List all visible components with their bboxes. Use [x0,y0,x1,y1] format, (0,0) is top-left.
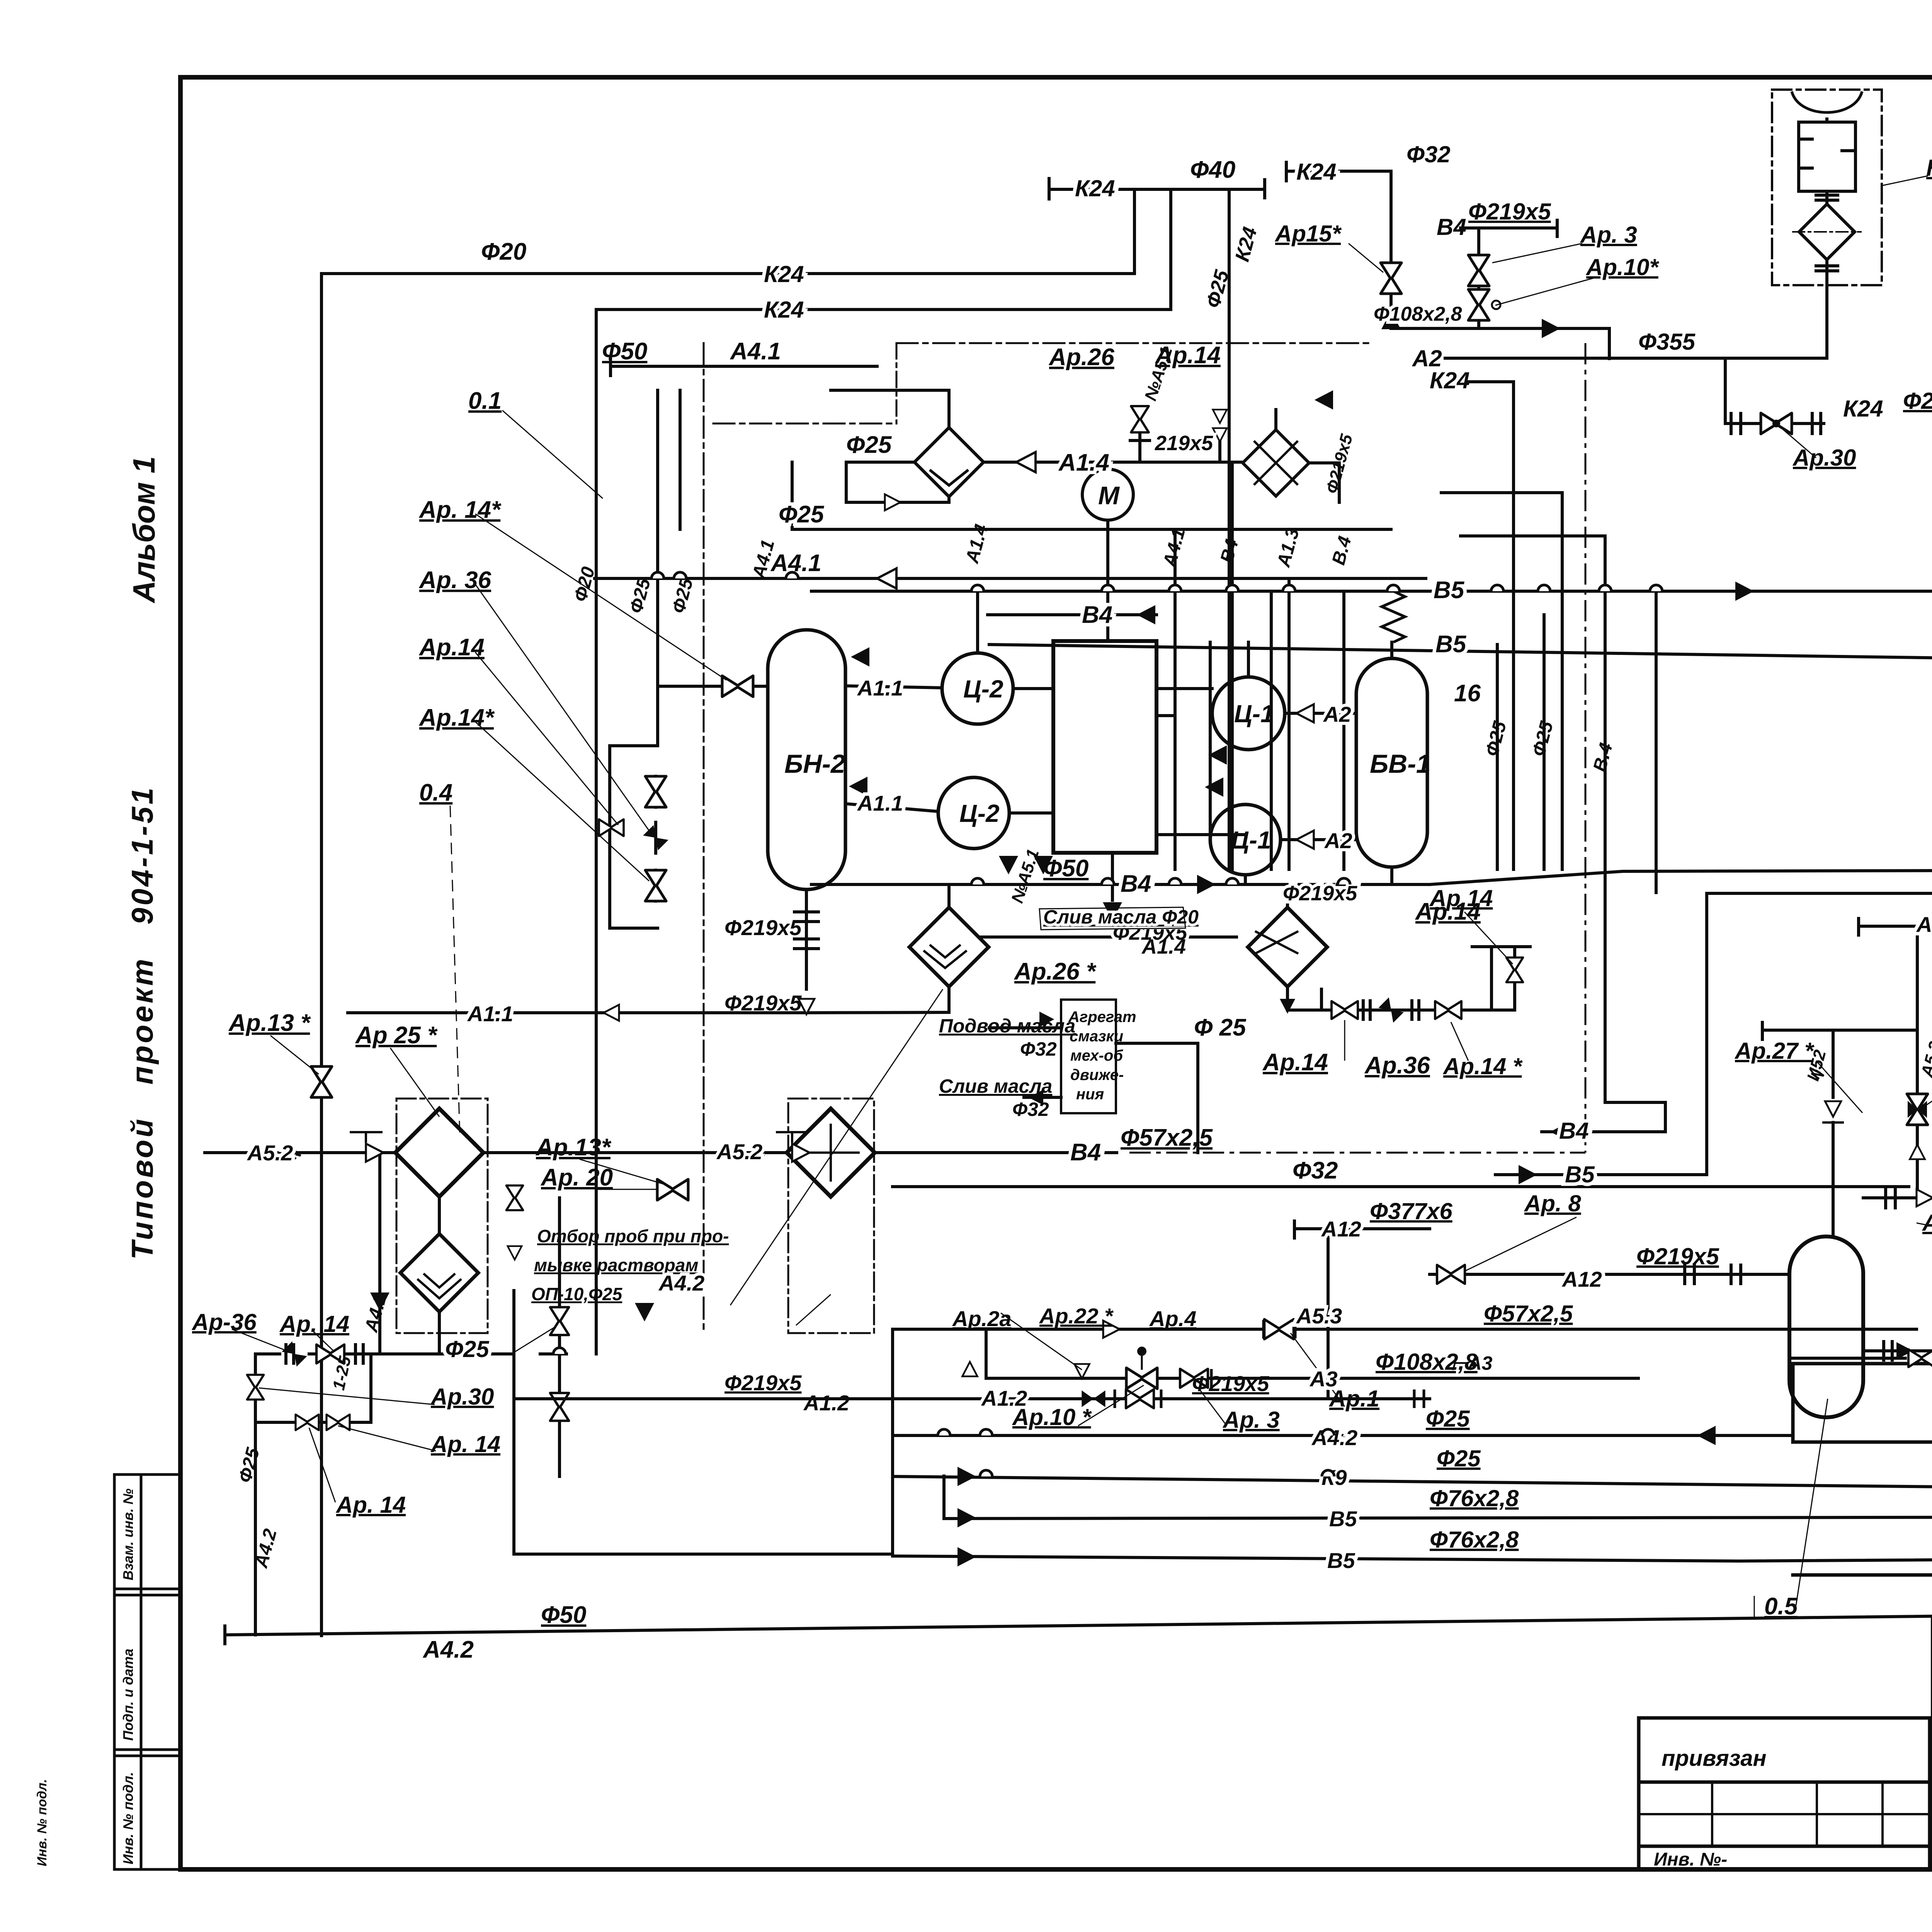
svg-text:Ар. 14: Ар. 14 [279,1311,349,1337]
svg-text:В4: В4 [1437,214,1466,240]
svg-text:0.5: 0.5 [1764,1593,1798,1620]
svg-text:К24: К24 [1843,396,1883,422]
svg-text:Ар.14: Ар.14 [1429,885,1493,911]
svg-text:Ар. 14*: Ар. 14* [418,497,502,523]
svg-text:Подвод масла: Подвод масла [939,1015,1075,1037]
svg-text:Ар.14 *: Ар.14 * [1442,1053,1523,1079]
svg-text:А1.2: А1.2 [803,1391,849,1415]
svg-text:Взам. инв. №: Взам. инв. № [120,1488,136,1580]
svg-text:Ар.17 *: Ар.17 * [1922,1210,1932,1236]
svg-text:Альбом 1: Альбом 1 [127,456,161,604]
svg-text:0.4: 0.4 [419,779,452,806]
svg-text:Ф50: Ф50 [541,1602,586,1628]
svg-text:Ар.26: Ар.26 [1048,344,1114,371]
svg-text:Ар.36: Ар.36 [1364,1052,1430,1079]
svg-text:Ар15*: Ар15* [1274,221,1342,247]
svg-text:А1.2: А1.2 [981,1386,1027,1410]
svg-text:Инв. №-: Инв. №- [1654,1849,1727,1870]
svg-text:Ар.2а: Ар.2а [952,1306,1012,1331]
svg-text:Ф219х5: Ф219х5 [1283,882,1357,905]
svg-text:Ар.4: Ар.4 [1149,1306,1196,1331]
svg-text:Слив масла Ф20: Слив масла Ф20 [1043,906,1199,928]
svg-text:мех-об: мех-об [1070,1047,1123,1064]
svg-text:Ф25: Ф25 [1437,1446,1481,1471]
svg-text:⊢А3: ⊢А3 [1451,1352,1493,1374]
svg-text:Ф355: Ф355 [1638,329,1696,355]
svg-text:Ф20: Ф20 [1903,388,1932,414]
svg-text:К24: К24 [764,297,804,323]
svg-text:Ф25: Ф25 [445,1336,490,1362]
svg-text:А5.3: А5.3 [1916,912,1932,937]
svg-text:16: 16 [1454,680,1481,707]
svg-text:В5: В5 [1327,1548,1355,1573]
svg-text:Ар. 36: Ар. 36 [418,567,492,594]
svg-text:БВ-1: БВ-1 [1370,749,1431,779]
svg-text:219х5: 219х5 [1155,432,1213,455]
svg-text:Ф32: Ф32 [1020,1038,1057,1060]
svg-text:В5: В5 [1434,577,1465,604]
svg-text:В5: В5 [1565,1162,1595,1187]
svg-text:К24: К24 [1430,367,1470,393]
svg-text:Ф32: Ф32 [1406,141,1451,167]
svg-text:К9: К9 [1321,1465,1347,1490]
svg-text:БН-2: БН-2 [784,749,845,779]
svg-text:Ар.14: Ар.14 [418,634,485,661]
svg-text:Ар.14: Ар.14 [1262,1049,1328,1076]
svg-text:смазки: смазки [1070,1028,1123,1045]
svg-text:А5.3: А5.3 [1296,1304,1342,1328]
svg-text:А5.2: А5.2 [716,1139,762,1164]
svg-text:В4: В4 [1070,1139,1101,1166]
svg-text:А4.2: А4.2 [1311,1425,1357,1450]
svg-text:Типовой проект 904-1-51: Типовой проект 904-1-51 [125,785,159,1260]
svg-text:Ц-1: Ц-1 [1231,826,1271,854]
svg-text:Ц-2: Ц-2 [963,675,1003,703]
svg-text:Ф50: Ф50 [602,338,647,365]
svg-text:А5.2: А5.2 [247,1141,293,1165]
svg-text:Подп. и дата: Подп. и дата [120,1649,136,1741]
svg-text:Ар. 8: Ар. 8 [1524,1190,1581,1216]
svg-text:Ф57х2,5: Ф57х2,5 [1484,1301,1573,1327]
svg-text:А1.4: А1.4 [1058,449,1109,476]
svg-text:А2: А2 [1324,828,1352,853]
svg-text:Ф219х5: Ф219х5 [724,915,802,940]
svg-text:К24: К24 [1075,175,1115,201]
svg-text:Ф219х5: Ф219х5 [724,991,802,1015]
svg-text:Ф20: Ф20 [481,238,526,265]
svg-text:Ф219х5: Ф219х5 [1192,1371,1269,1396]
svg-text:Ц-2: Ц-2 [959,799,1000,827]
svg-text:Ар-36: Ар-36 [191,1309,257,1335]
svg-text:ния: ния [1076,1086,1104,1103]
svg-text:Ар. 14: Ар. 14 [430,1431,500,1457]
svg-text:Ар. 3: Ар. 3 [1580,222,1637,248]
svg-text:Ф32: Ф32 [1012,1099,1049,1120]
svg-text:В4: В4 [1121,871,1151,897]
svg-text:А12: А12 [1321,1217,1361,1241]
svg-text:Ф25: Ф25 [1426,1406,1470,1432]
svg-text:0.1: 0.1 [468,388,502,414]
svg-text:Ф377х6: Ф377х6 [1370,1198,1452,1224]
svg-text:Ар.30: Ар.30 [1792,445,1856,471]
svg-text:К24: К24 [1296,159,1337,185]
svg-text:Ф219х5: Ф219х5 [724,1371,802,1395]
svg-text:Ф219х5: Ф219х5 [1468,199,1551,224]
svg-text:А12: А12 [1561,1267,1602,1291]
svg-text:В5: В5 [1329,1507,1357,1531]
svg-text:М: М [1098,481,1120,510]
svg-text:Отбор проб при про-: Отбор проб при про- [537,1226,729,1246]
svg-text:Ф76х2,8: Ф76х2,8 [1430,1485,1519,1511]
svg-text:Инв. № подл.: Инв. № подл. [120,1772,136,1864]
svg-text:Ф57х2,5: Ф57х2,5 [1121,1124,1213,1151]
svg-text:А4.1: А4.1 [730,338,781,365]
svg-text:Ар.13 *: Ар.13 * [228,1010,311,1036]
svg-text:НО.1: НО.1 [1926,155,1932,181]
svg-text:Ф25: Ф25 [779,501,825,528]
svg-text:Ф 25: Ф 25 [1194,1014,1247,1041]
svg-text:ОП-10,Ф25: ОП-10,Ф25 [531,1284,623,1304]
svg-text:К24: К24 [764,261,804,287]
svg-text:Ц-1: Ц-1 [1234,700,1274,728]
svg-text:А1.4: А1.4 [1141,935,1186,958]
svg-text:В4: В4 [1559,1118,1589,1144]
svg-text:Ар.22 *: Ар.22 * [1039,1304,1114,1328]
svg-text:Ф25: Ф25 [846,432,892,458]
svg-text:привязан: привязан [1662,1746,1767,1771]
svg-text:Ар.10*: Ар.10* [1585,254,1659,280]
svg-text:А1.1: А1.1 [857,791,903,815]
svg-text:Ф219х5: Ф219х5 [1636,1243,1719,1269]
svg-text:Ф40: Ф40 [1190,156,1235,183]
svg-text:А2: А2 [1323,702,1351,726]
svg-text:В5: В5 [1435,631,1467,658]
svg-text:А1.1: А1.1 [857,676,903,700]
svg-text:Агрегат: Агрегат [1068,1009,1136,1026]
svg-text:Ф32: Ф32 [1293,1157,1338,1184]
svg-text:А4.2: А4.2 [658,1271,704,1295]
svg-text:В4: В4 [1082,602,1112,628]
svg-text:Ар.1: Ар.1 [1328,1386,1379,1412]
svg-text:Ар.30: Ар.30 [430,1384,494,1410]
svg-text:Ар.14*: Ар.14* [418,704,495,731]
svg-text:Ар. 20: Ар. 20 [540,1164,613,1191]
svg-text:Ар 25 *: Ар 25 * [355,1022,438,1049]
svg-text:А1.1: А1.1 [467,1002,513,1026]
svg-text:Ф76х2,8: Ф76х2,8 [1430,1527,1519,1553]
svg-text:А4.2: А4.2 [422,1636,474,1663]
svg-text:Ф108х2,8: Ф108х2,8 [1374,303,1462,325]
svg-text:Ар.26 *: Ар.26 * [1014,958,1097,985]
svg-text:Инв. № подл.: Инв. № подл. [35,1779,49,1866]
svg-text:Ар.27 *: Ар.27 * [1734,1038,1815,1064]
svg-text:Ар. 14: Ар. 14 [335,1492,406,1518]
svg-text:Ар.13*: Ар.13* [535,1134,612,1161]
svg-text:движе-: движе- [1070,1066,1124,1083]
svg-text:Ар. 3: Ар. 3 [1222,1407,1280,1433]
svg-text:Слив масла: Слив масла [939,1075,1052,1097]
svg-text:Ф50: Ф50 [1043,855,1088,882]
